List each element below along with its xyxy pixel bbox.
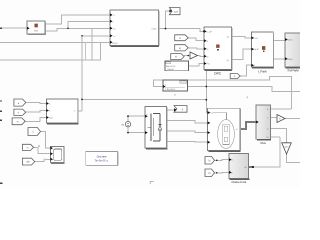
svg-text:DPC: DPC	[214, 71, 222, 75]
down triangle T3	[282, 143, 292, 154]
svg-text:rpm: rpm	[285, 146, 289, 149]
wire long y60.2 from left edge	[0, 42, 101, 60]
wire dc source top	[128, 115, 145, 117]
wire dc source bottom	[128, 132, 145, 134]
from tag F4	[14, 99, 26, 106]
wire from tag id to gain T1	[184, 55, 190, 57]
svg-text:w: w	[179, 37, 181, 40]
wire from tag F10 to scope p2	[34, 147, 51, 153]
wire left into source block	[0, 27, 27, 29]
from tag F8	[205, 157, 215, 165]
port arrows group	[27, 10, 288, 174]
dc source	[121, 122, 130, 127]
wire dc source vertical	[127, 116, 129, 121]
wire branch up to goto speed	[166, 11, 170, 29]
svg-text:Discrete: Discrete	[97, 156, 107, 159]
svg-text:A: A	[234, 75, 236, 78]
from tag F6	[12, 118, 25, 125]
svg-text:w: w	[17, 121, 19, 124]
svg-text:w: w	[114, 35, 116, 38]
wire I_Park out2 to SVPWM in2	[273, 58, 285, 60]
svg-text:I_Park: I_Park	[258, 69, 268, 73]
svg-text:m: m	[236, 128, 238, 131]
wire inverter outA to machine in1	[167, 121, 208, 123]
from tag F7	[28, 128, 41, 136]
wire clarke-park out run to corner	[253, 137, 280, 167]
svg-text:_Signal: _Signal	[165, 68, 174, 71]
svg-text:flux: flux	[34, 30, 39, 33]
annotation mark bottom middle	[150, 182, 153, 185]
wire mux out4 to corner x280	[271, 136, 281, 138]
wire speed feedback long	[154, 77, 292, 109]
wire DPC out2 to I_Park p2	[232, 49, 252, 60]
wire from tag F7 down to scope p1	[41, 132, 51, 149]
svg-text:uqref: uqref	[254, 48, 260, 51]
wire from tags into subsystem B2 p3	[25, 118, 46, 122]
svg-text:cmd: cmd	[254, 37, 259, 40]
wire filter out across y86.8	[188, 87, 301, 92]
from tag F9	[205, 169, 215, 177]
I_Park block	[251, 32, 273, 73]
svg-text:SVPWM: SVPWM	[287, 68, 299, 72]
svg-text:fc: fc	[174, 93, 177, 96]
svg-text:Band-Ltd: Band-Ltd	[166, 65, 176, 68]
mux block MX	[256, 105, 271, 145]
wire inverter m to goto g	[167, 109, 174, 111]
wire from tag A to I_Park p3	[240, 65, 251, 76]
from tag F10	[22, 144, 33, 150]
tiny badge near scope wires	[38, 145, 40, 147]
wire from tag iq to DPC p3	[188, 48, 204, 49]
wire down triangle out to right edge	[287, 154, 301, 163]
wire subsystem B2 out to vertical x82	[78, 110, 82, 112]
thick wire machine out to mux	[240, 122, 256, 129]
band-limited block BL	[165, 61, 189, 71]
SVPWM block	[285, 33, 302, 72]
svg-text:Tm: Tm	[210, 112, 213, 115]
wire mux out1 to feedback riser	[271, 108, 292, 110]
wire from tag F11 to scope p3	[35, 159, 51, 161]
wire from tag w to DPC p2	[188, 38, 204, 41]
wire torque net horizontal y98.7	[82, 98, 206, 100]
big block B1	[110, 10, 159, 46]
wire inverter outB to machine in2	[167, 131, 208, 133]
wire mux out3 to down triangle	[271, 128, 287, 143]
wire I_Park out1 to SVPWM in1	[273, 39, 285, 42]
wire branch up to port2	[68, 21, 110, 28]
svg-text:Clarke-Park: Clarke-Park	[231, 180, 246, 184]
machine block M	[208, 108, 241, 151]
svg-text:Tm: Tm	[207, 63, 210, 66]
wire port5 long from left edge	[0, 41, 110, 43]
DPC block	[204, 27, 232, 75]
gain triangle T2	[277, 115, 285, 123]
svg-text:dc: dc	[121, 123, 124, 126]
svg-text:u_qP: u_qP	[207, 31, 213, 34]
filter block FL	[163, 80, 188, 96]
inverter block INV	[145, 106, 167, 148]
wire from tag F9 to clarke-park in2	[215, 171, 230, 173]
svg-text:q: q	[247, 95, 249, 99]
goto tag speed G1	[169, 8, 180, 15]
from tag F1	[175, 35, 189, 41]
svg-text:Ts=5e-05 s.: Ts=5e-05 s.	[95, 159, 109, 162]
svg-text:Mux: Mux	[260, 141, 266, 145]
clarke-park block CP	[229, 154, 249, 185]
goto tag g	[174, 106, 187, 113]
scope block SC	[50, 147, 64, 164]
wire from tags into subsystem B2 p2	[26, 111, 47, 113]
wire vertical x206.3 down to machine Tm	[206, 70, 207, 113]
from tag F2	[175, 45, 189, 51]
wire big block out to DPC in1	[159, 29, 205, 32]
IGBT symbol inside inverter	[148, 114, 162, 142]
wire from tag F8 to clarke-park in1	[215, 159, 230, 162]
svg-text:spd: spd	[114, 42, 119, 45]
wire gain T1 out to DPC p4	[198, 55, 205, 58]
wire from tags into subsystem B2 p1	[26, 103, 47, 104]
wire port4 from torque vertical	[82, 35, 110, 37]
subsystem B2	[46, 99, 78, 124]
wire branch down x92	[91, 28, 93, 60]
svg-text:Duty: Duty	[152, 28, 158, 31]
thick wire clarke-park out stub	[249, 166, 253, 168]
svg-text:iab: iab	[26, 161, 30, 164]
from tag F5	[14, 109, 26, 115]
gain triangle T1	[190, 52, 198, 59]
wire source out2 step to port3 line	[45, 28, 110, 31]
wire DPC out1 to I_Park p1	[232, 37, 252, 38]
wire band-limited out to DPC p5	[189, 64, 204, 66]
from tag F3	[171, 54, 184, 60]
wire vertical x82 torque net	[81, 36, 83, 111]
svg-text:1.5e-3s+1: 1.5e-3s+1	[165, 88, 176, 91]
svg-text:Alpha: Alpha	[287, 39, 294, 42]
svg-text:w: w	[27, 146, 29, 149]
source block S1	[27, 21, 46, 35]
wire source out1 to big block port1	[45, 15, 110, 24]
wire inverter outC to machine in3	[167, 140, 208, 143]
from tag F11	[22, 158, 34, 165]
from tag A	[230, 74, 240, 79]
left edge stubs	[0, 28, 3, 185]
wire gain T2 out to right edge	[285, 118, 300, 120]
svg-text:spd: spd	[174, 10, 179, 13]
powergui block PG	[86, 152, 118, 166]
wire link vertical x85.6	[85, 42, 87, 60]
svg-text:Abeta: Abeta	[287, 58, 294, 61]
wire mux out2 to gain T2	[271, 117, 278, 119]
